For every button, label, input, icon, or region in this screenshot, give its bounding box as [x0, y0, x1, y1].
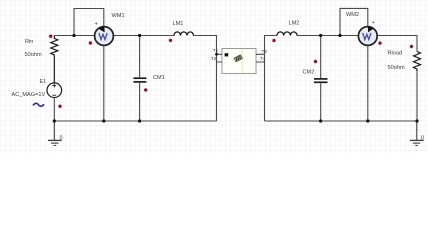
- ac tilde: [33, 103, 44, 106]
- WM2 needle: [368, 26, 374, 32]
- transformer core line: [241, 49, 243, 73]
- source E1: [47, 83, 62, 98]
- ground right: [410, 121, 424, 145]
- transformer icon: [234, 55, 243, 62]
- svg-text:LM2: LM2: [289, 20, 300, 26]
- capacitor CM1: [139, 36, 141, 78]
- inductor LM1: [174, 32, 194, 36]
- svg-text:+: +: [372, 20, 376, 26]
- wire: LM2 right to WM2: [297, 35, 358, 37]
- wire: bottom left rail: [54, 120, 216, 122]
- svg-text:T3: T3: [262, 49, 268, 54]
- transformer box: [222, 49, 256, 74]
- svg-text:Rload: Rload: [388, 51, 403, 57]
- wire: LM1 to transformer left corner, down: [194, 36, 217, 122]
- resistor Rin: [51, 36, 58, 84]
- svg-text:50ohm: 50ohm: [25, 52, 42, 58]
- capacitor CM2: [320, 36, 322, 79]
- svg-text:CM2: CM2: [303, 70, 315, 76]
- wire: WM1 right to LM1: [114, 35, 174, 37]
- W letter WM2: [363, 33, 371, 40]
- svg-text:CM1: CM1: [153, 75, 165, 81]
- wattmeter WM2: [358, 27, 377, 46]
- probe dots (red): [48, 34, 413, 109]
- svg-text:E1: E1: [40, 79, 47, 85]
- wire: WM2 bottom to rail: [367, 46, 369, 121]
- svg-text:AC_MAG=1V: AC_MAG=1V: [12, 92, 46, 98]
- svg-text:0: 0: [421, 135, 424, 141]
- wire: E1 bottom to rail: [53, 98, 55, 122]
- W letter WM1: [99, 33, 107, 40]
- wattmeter WM2 loop wire: [340, 8, 368, 35]
- svg-text:T4: T4: [260, 56, 266, 62]
- resistor Rload: [414, 52, 421, 72]
- svg-text:WM2: WM2: [346, 12, 359, 18]
- junction dots: [72, 34, 75, 37]
- svg-text:T2: T2: [211, 56, 217, 62]
- svg-text:LM1: LM1: [173, 21, 184, 27]
- wire: Rload bottom to rail: [416, 71, 418, 121]
- svg-text:Rin: Rin: [25, 39, 33, 45]
- svg-text:+: +: [95, 21, 99, 27]
- svg-text:50ohm: 50ohm: [388, 65, 405, 71]
- wire: WM2 right to Rload corner down: [377, 36, 417, 52]
- svg-text:T1: T1: [213, 48, 219, 53]
- svg-text:0: 0: [60, 136, 63, 142]
- junction transformer left: [215, 53, 218, 56]
- wire: transformer right vertical: [265, 36, 278, 122]
- pin dot: [225, 53, 229, 56]
- wattmeter WM1: [95, 27, 114, 46]
- WM1 needle: [99, 26, 105, 32]
- inductor LM2: [277, 32, 297, 36]
- wattmeter WM1 loop wire: [74, 9, 104, 36]
- transformer stubs right: [256, 54, 265, 62]
- wire: WM1 bottom to rail: [103, 46, 105, 121]
- svg-text:WM1: WM1: [112, 13, 125, 19]
- ground left: [48, 121, 62, 145]
- wire: bottom right rail: [265, 120, 418, 122]
- wire: main top rail left section: [54, 35, 94, 37]
- transformer stubs left: [217, 54, 223, 62]
